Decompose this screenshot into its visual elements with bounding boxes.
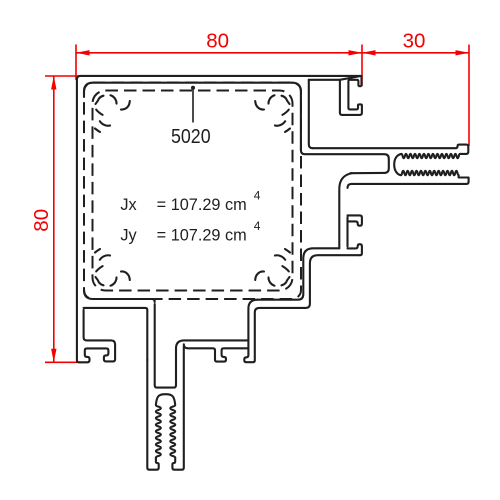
bar bottom with two gasket hooks (toes inward) (184, 344, 249, 361)
svg-text:4: 4 (254, 219, 261, 233)
svg-text:80: 80 (206, 29, 229, 52)
svg-text:Jy: Jy (120, 226, 137, 244)
svg-text:4: 4 (254, 188, 261, 202)
box bottom outer edge (left portion) elbow into boss left wall (84, 308, 148, 360)
bottom-right foot wall with left-pointing toe hook (244, 255, 360, 362)
boss interior slot with closed bottom, up to bar elbow (155, 304, 176, 388)
svg-text:=: = (157, 196, 167, 214)
svg-text:30: 30 (403, 29, 426, 52)
leader dot and line for 5020 (191, 86, 195, 90)
svg-text:=: = (157, 226, 167, 244)
corner squiggle hatch top-left (95, 95, 130, 132)
profile: top bar, left wall, bottom-left foot with gasket channel (77, 76, 362, 362)
middle C-hook bottom lip with up tooth (348, 244, 362, 255)
box right wall outer line elbow into arm top (309, 80, 313, 148)
corner squiggle hatch bottom-right (255, 249, 290, 286)
arm bottom wall elbows into C-wall (339, 173, 352, 189)
dimension arrow right of 30 (456, 50, 470, 55)
box right wall inner solid line with cavity corner arc (292, 83, 301, 150)
dimension: extension line bottom (y=362.3) (45, 361, 82, 363)
svg-text:107.29 cm: 107.29 cm (171, 196, 247, 214)
top bar underside (overhang) (309, 79, 340, 81)
dimension: horizontal dim line (80 + 30) (76, 52, 469, 54)
middle glazing C-hook wall (338, 190, 340, 248)
svg-text:Jx: Jx (120, 196, 136, 214)
box cavity bottom inner line (left portion) elbow into boss slot (93, 299, 155, 302)
screw boss left wall and left foot (147, 360, 158, 470)
box cavity bottom-left corner arc (84, 290, 93, 299)
top-right C assembly (glazing groove at top corner) (340, 76, 362, 115)
middle C-hook top lip with down tooth (348, 215, 362, 225)
dimension arrow top of vertical 80 (51, 76, 56, 90)
dimension arrow left of 30 (362, 50, 376, 55)
dimension: extension line middle (x=362) (361, 45, 363, 87)
corner squiggle hatch top-right (255, 95, 290, 132)
dimension: extension line right (x=469) (468, 45, 470, 147)
box cavity top solid line with corner arcs (84, 83, 292, 97)
dimension: extension line left (x=76) (75, 45, 77, 81)
arm internal cavity (301, 150, 389, 173)
dimension arrow left of 80 (76, 50, 90, 55)
dimension: vertical dim line (80) (53, 76, 55, 362)
arm top edge with right tab (313, 145, 469, 154)
bar top line from boss elbow to bottom-right wall (176, 340, 248, 348)
arm serrated screw slot (394, 154, 460, 175)
screw boss right foot and right wall (172, 346, 183, 470)
box cavity bottom inner line (right) up step wall to middle bar top (257, 248, 339, 299)
dimension: extension line top (y=76) (45, 75, 80, 77)
arm bottom outer edge with right end step (352, 175, 469, 184)
screw boss threaded hole (156, 394, 175, 458)
dimension arrow right of 80 (349, 50, 363, 55)
dashed inner cavity rectangle (rect A) (84, 83, 301, 300)
corner squiggle hatch bottom-left (95, 249, 130, 286)
middle C-hook back wall inner line (346, 217, 348, 247)
svg-text:107.29 cm: 107.29 cm (171, 226, 247, 244)
svg-text:5020: 5020 (171, 125, 211, 148)
svg-text:80: 80 (30, 209, 53, 232)
dimension arrow bottom of vertical 80 (51, 349, 56, 363)
dashed insulation rectangle (rect B) (93, 91, 293, 291)
